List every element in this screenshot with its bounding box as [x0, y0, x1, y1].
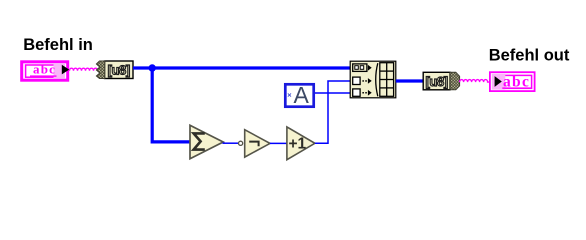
svg-text:Befehl out: Befehl out — [489, 47, 570, 65]
node: Increment (+1) — [287, 127, 315, 160]
svg-text:+1: +1 — [289, 136, 307, 153]
node: Build Array — [350, 61, 396, 98]
svg-text:[u8]: [u8] — [425, 74, 447, 89]
svg-text:×: × — [287, 90, 292, 99]
wire: sigma to Not — [223, 142, 239, 144]
string indicator "Befehl out" terminal — [490, 72, 535, 91]
string wire node to indicator — [460, 80, 490, 83]
wire: byte array main (thick blue) — [133, 66, 351, 69]
wire: Build Array to Byte-Array-To-String (thick blue) — [396, 79, 424, 82]
negation bubble — [239, 141, 243, 145]
junction — [149, 64, 156, 71]
wire: Not to Increment — [270, 142, 287, 144]
wire: constant to Build Array input 3 — [315, 92, 351, 94]
constant 0xA — [285, 82, 313, 108]
string control "Befehl in" terminal — [22, 62, 69, 81]
string wire control to String-To-Byte-Array — [70, 68, 98, 71]
node: Add Array Elements (sigma) — [190, 125, 223, 158]
svg-text:[u8]: [u8] — [108, 63, 130, 78]
node U2: Byte Array To String [u8] — [423, 72, 459, 90]
wire: branch down and to Add Array Elements — [152, 68, 190, 142]
node: Not — [245, 130, 270, 157]
wire: Increment up to Build Array input 2 — [315, 81, 351, 143]
svg-text:abc: abc — [33, 62, 56, 77]
svg-text:Befehl in: Befehl in — [23, 36, 93, 54]
node U1: String To Byte Array [u8] — [96, 61, 133, 79]
svg-text:A: A — [294, 82, 310, 108]
